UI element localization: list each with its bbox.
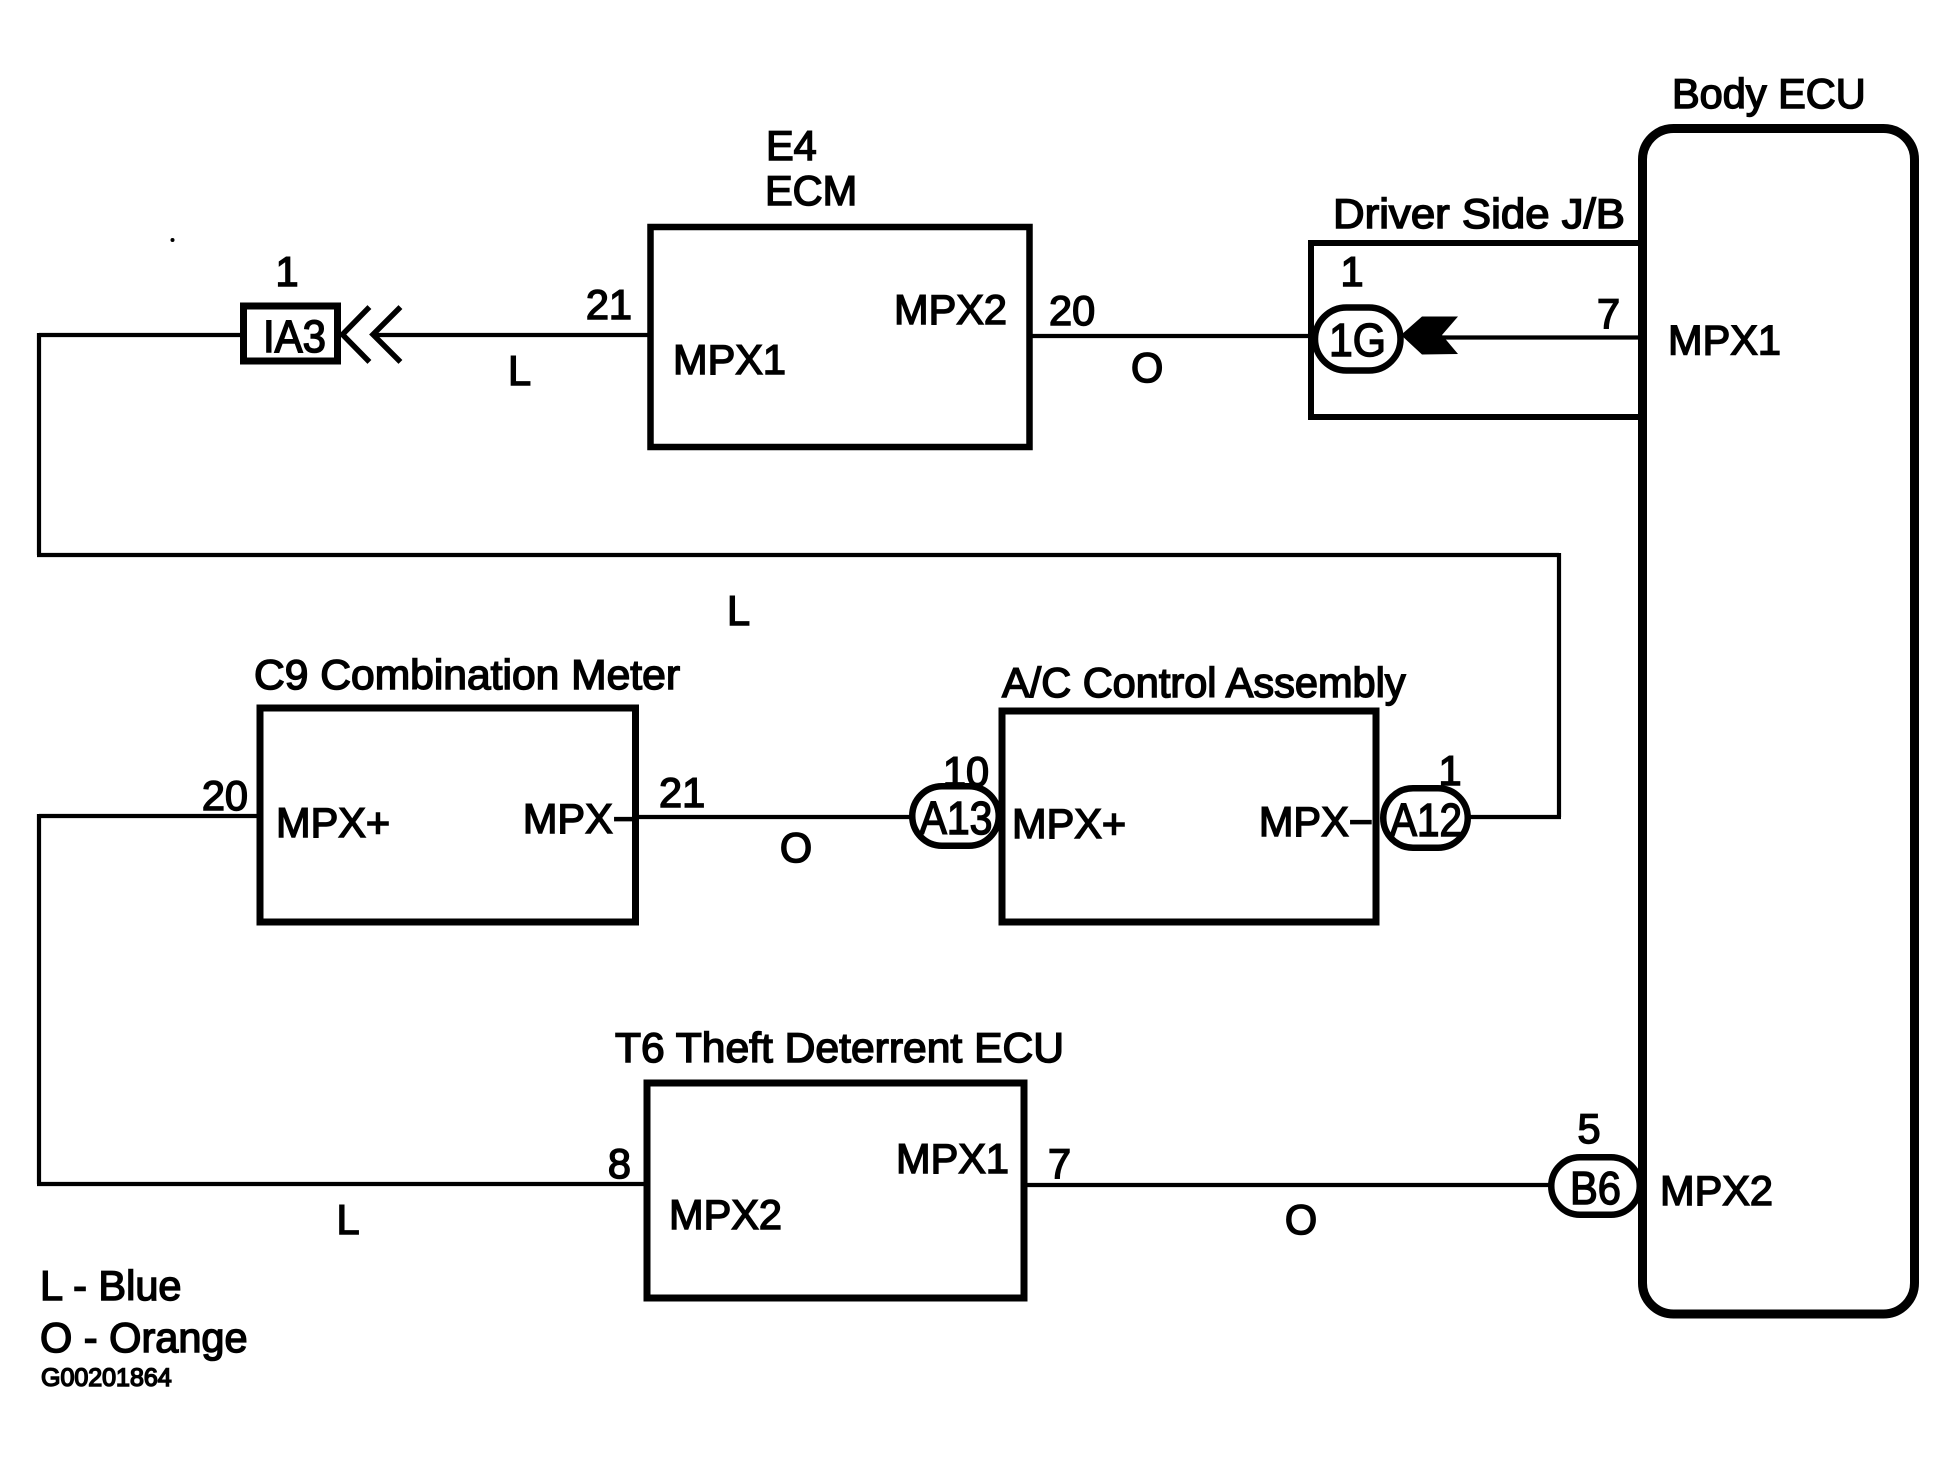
svg-text:MPX2: MPX2	[894, 286, 1007, 333]
Driver Side J/B box	[1311, 243, 1642, 417]
svg-text:O: O	[1285, 1196, 1317, 1243]
connector IA3	[244, 306, 338, 361]
svg-text:1: 1	[1340, 248, 1363, 295]
C9 Combination Meter box	[260, 708, 636, 922]
svg-text:L - Blue: L - Blue	[40, 1262, 181, 1309]
ECM box E4	[651, 227, 1030, 447]
connector 1G	[1315, 308, 1401, 371]
svg-text:MPX2: MPX2	[1660, 1167, 1773, 1214]
svg-text:MPX1: MPX1	[1668, 317, 1781, 364]
wire: IA3 to left margin	[39, 333, 241, 337]
svg-text:1G: 1G	[1329, 314, 1386, 366]
svg-text:1: 1	[275, 248, 298, 295]
wire: riser down to A12 run	[1557, 553, 1561, 817]
svg-text:MPX2: MPX2	[669, 1191, 782, 1238]
svg-text:MPX1: MPX1	[673, 336, 786, 383]
svg-text:MPX−: MPX−	[1259, 798, 1373, 845]
svg-text:C9 Combination Meter: C9 Combination Meter	[254, 651, 680, 698]
connector B6	[1551, 1157, 1640, 1215]
svg-text:MPX+: MPX+	[1012, 800, 1126, 847]
svg-text:O: O	[780, 824, 812, 871]
connector A13	[912, 786, 999, 846]
wire: left vertical riser 2 (L)	[37, 814, 41, 1184]
svg-text:8: 8	[608, 1140, 631, 1187]
svg-text:IA3: IA3	[263, 311, 326, 362]
T6 Theft Deterrent ECU box	[647, 1083, 1024, 1298]
svg-text:O: O	[1131, 344, 1163, 391]
svg-text:T6 Theft Deterrent ECU: T6 Theft Deterrent ECU	[615, 1024, 1064, 1071]
svg-text:A13: A13	[920, 792, 993, 844]
A/C Control Assembly box	[1002, 711, 1376, 922]
svg-text:5: 5	[1577, 1105, 1600, 1152]
wire: chevrons to ECM pin 21	[372, 333, 651, 337]
chevron arrows at IA3	[343, 309, 399, 360]
wire: ECM pin 20 to 1G	[1029, 334, 1314, 338]
svg-text:O - Orange: O - Orange	[40, 1314, 248, 1361]
svg-text:MPX−: MPX−	[523, 795, 637, 842]
arrow (solid, pointing left)	[1401, 317, 1458, 355]
wire: long horizontal L run	[37, 553, 1559, 557]
wire: left vertical riser (L)	[37, 333, 41, 555]
svg-text:Body ECU: Body ECU	[1672, 70, 1866, 117]
wire: C9 pin 20 to left margin	[39, 814, 261, 818]
svg-text:A/C Control Assembly: A/C Control Assembly	[1002, 659, 1406, 706]
wire: arrow to Body ECU pin 7	[1442, 335, 1641, 339]
svg-text:7: 7	[1048, 1140, 1071, 1187]
svg-text:20: 20	[202, 772, 248, 819]
svg-text:L: L	[508, 347, 531, 394]
svg-text:21: 21	[659, 769, 705, 816]
svg-text:E4: E4	[766, 122, 817, 169]
svg-text:Driver Side J/B: Driver Side J/B	[1333, 190, 1625, 237]
svg-text:L: L	[727, 587, 750, 634]
connector A12	[1383, 788, 1468, 848]
svg-text:7: 7	[1597, 290, 1620, 337]
svg-text:B6: B6	[1570, 1162, 1621, 1214]
svg-text:A12: A12	[1390, 794, 1462, 846]
Body ECU box	[1643, 129, 1915, 1315]
wire: left margin to T6 pin 8	[37, 1182, 648, 1186]
svg-text:MPX+: MPX+	[276, 799, 390, 846]
svg-text:L: L	[336, 1196, 359, 1243]
wire: A12 to riser	[1469, 815, 1561, 819]
svg-text:ECM: ECM	[765, 167, 857, 214]
speck	[171, 238, 175, 242]
svg-text:21: 21	[586, 281, 632, 328]
wire: T6 pin 7 to B6	[1023, 1183, 1549, 1187]
svg-text:MPX1: MPX1	[896, 1135, 1009, 1182]
svg-text:G00201864: G00201864	[41, 1364, 172, 1392]
svg-text:20: 20	[1049, 287, 1095, 334]
wire: C9 pin 21 to A13	[634, 815, 910, 819]
